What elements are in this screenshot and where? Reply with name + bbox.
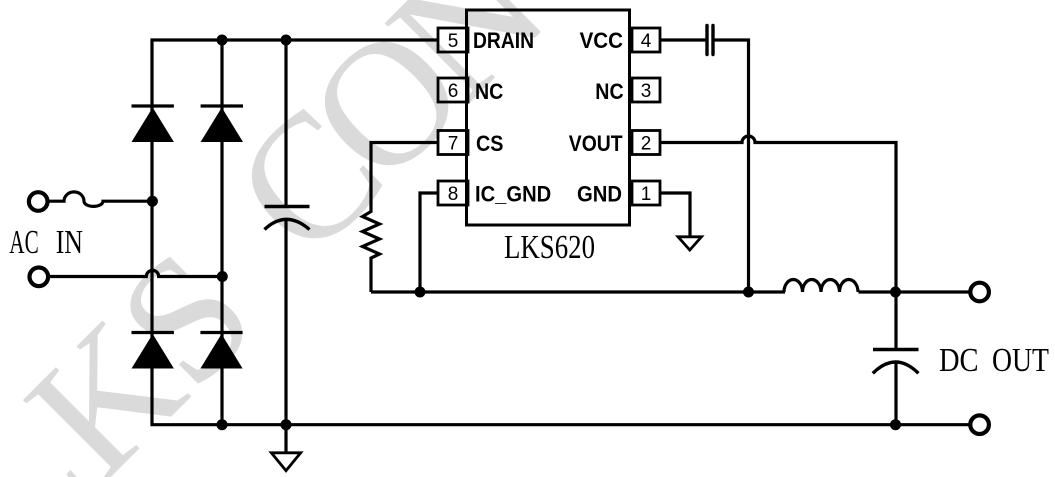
svg-text:IC_GND: IC_GND (475, 182, 551, 207)
svg-text:LKS620: LKS620 (504, 229, 595, 266)
svg-text:NC: NC (475, 79, 503, 104)
svg-text:GND: GND (577, 182, 622, 207)
svg-text:AC: AC (9, 224, 38, 261)
svg-text:1: 1 (641, 184, 652, 205)
svg-text:OUT: OUT (992, 342, 1049, 379)
svg-text:7: 7 (448, 133, 459, 154)
svg-text:IN: IN (56, 224, 83, 261)
svg-text:2: 2 (641, 133, 652, 154)
svg-text:5: 5 (448, 31, 459, 52)
svg-text:VCC: VCC (580, 28, 624, 53)
svg-text:3: 3 (641, 81, 652, 102)
svg-text:DRAIN: DRAIN (473, 28, 534, 53)
svg-text:CS: CS (476, 131, 503, 156)
svg-text:8: 8 (448, 184, 459, 205)
svg-text:4: 4 (641, 31, 652, 52)
svg-text:VOUT: VOUT (569, 131, 623, 156)
svg-text:NC: NC (595, 79, 623, 104)
svg-text:6: 6 (448, 81, 459, 102)
svg-text:DC: DC (939, 342, 979, 379)
